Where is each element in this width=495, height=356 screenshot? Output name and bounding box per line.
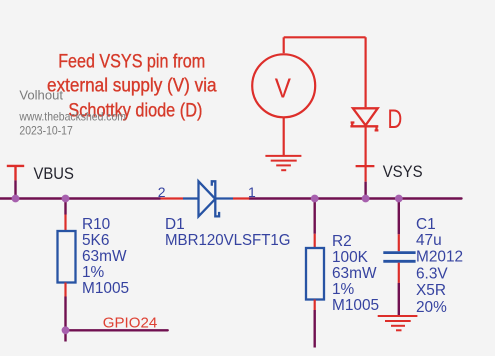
pin stub: D1 pin 2 (red): [161, 197, 184, 199]
junction at R10 branch: [62, 195, 70, 203]
pin stub: C1 pin 1 (red): [398, 234, 400, 251]
junction at GPIO24: [62, 326, 70, 334]
wire: R2 bottom going off-page: [314, 310, 316, 348]
svg-text:R2: R2: [332, 233, 352, 250]
svg-text:M1005: M1005: [82, 280, 129, 297]
pin stub: R2 pin 1 (red): [314, 234, 316, 248]
svg-text:D1: D1: [165, 216, 185, 233]
svg-text:1%: 1%: [332, 281, 355, 298]
wire: voltmeter to ground: [283, 117, 285, 156]
svg-text:X5R: X5R: [416, 282, 446, 299]
svg-text:MBR120VLSFT1G: MBR120VLSFT1G: [165, 232, 291, 249]
pin: D1 anode lead (blue): [183, 197, 199, 199]
ground under C1: [378, 316, 418, 330]
svg-text:external supply (V) via: external supply (V) via: [47, 76, 217, 97]
junction at C1 branch: [395, 195, 403, 203]
net label tick VSYS: [356, 165, 375, 167]
wire: R10 top (purple): [64, 199, 66, 215]
wire: D cathode down to VSYS (red): [365, 126, 367, 182]
svg-text:1: 1: [248, 184, 256, 200]
svg-text:63mW: 63mW: [332, 265, 377, 282]
svg-text:Feed VSYS pin from: Feed VSYS pin from: [58, 51, 205, 72]
svg-text:Volhout: Volhout: [19, 87, 63, 102]
pin stub: R2 pin 2 (red): [314, 300, 316, 311]
svg-text:2: 2: [158, 184, 166, 200]
svg-text:V: V: [275, 73, 291, 104]
svg-text:5K6: 5K6: [82, 232, 109, 249]
pin stub: D1 pin 1 (red): [233, 197, 249, 199]
svg-text:47u: 47u: [416, 232, 442, 249]
svg-text:D: D: [388, 104, 403, 134]
svg-text:63mW: 63mW: [82, 248, 127, 265]
wire: VBUS stem to bus: [14, 180, 16, 198]
schottky diode D (red, pointing down) triangle: [353, 108, 378, 125]
svg-text:R10: R10: [82, 216, 110, 233]
svg-text:2023-10-17: 2023-10-17: [19, 123, 73, 137]
wire: R2 top (purple): [314, 199, 316, 234]
pin stub: R10 pin 2 (red): [64, 283, 66, 297]
svg-text:M2012: M2012: [416, 249, 463, 266]
svg-text:VBUS: VBUS: [34, 164, 74, 183]
svg-text:M1005: M1005: [332, 297, 379, 314]
svg-text:20%: 20%: [416, 299, 447, 316]
pin stub: C1 pin 2 (red): [398, 263, 400, 283]
wire: main horizontal net, VBUS side: [0, 197, 161, 199]
ground under voltmeter: [265, 156, 301, 170]
pin stub: R10 pin 1 (red): [64, 215, 66, 232]
diode D1 triangle: [199, 181, 216, 216]
wire: GPIO24 horizontal: [66, 329, 168, 331]
svg-text:6.3V: 6.3V: [416, 265, 448, 282]
svg-text:www.thebackshed.com: www.thebackshed.com: [19, 109, 126, 123]
voltmeter V1 circle: [252, 54, 315, 117]
power terminal VBUS (red T): [7, 166, 24, 181]
wire: C1 to ground (purple): [398, 283, 400, 316]
wire: R10 bottom to GPIO junction: [64, 297, 66, 331]
value labels R10: [82, 216, 129, 297]
svg-text:VSYS: VSYS: [383, 162, 423, 181]
junction at VSYS label: [362, 195, 370, 203]
svg-text:C1: C1: [416, 216, 436, 233]
pin: D1 cathode lead (blue): [215, 197, 233, 199]
wire: to bus (purple): [364, 182, 366, 199]
wire: C1 top (purple): [398, 199, 400, 235]
svg-text:GPIO24: GPIO24: [103, 315, 157, 332]
value labels R2: [332, 233, 379, 314]
resistor R2 body: [306, 248, 324, 300]
junction at VBUS/bus: [12, 195, 20, 203]
wire: main horizontal net, VSYS side: [249, 197, 461, 199]
schottky diode D bar with hooks: [350, 123, 378, 131]
voltmeter V1 wires: top bar: [284, 37, 366, 107]
value labels C1: [416, 216, 463, 316]
svg-text:100K: 100K: [332, 249, 369, 266]
junction at D1 cathode / R2 branch: [311, 195, 319, 203]
resistor R10 body: [58, 231, 76, 283]
capacitor C1 plates: [383, 253, 415, 262]
wire: below GPIO junction: [64, 330, 66, 341]
diode D1 schottky bar: [212, 181, 219, 216]
svg-text:1%: 1%: [82, 264, 105, 281]
